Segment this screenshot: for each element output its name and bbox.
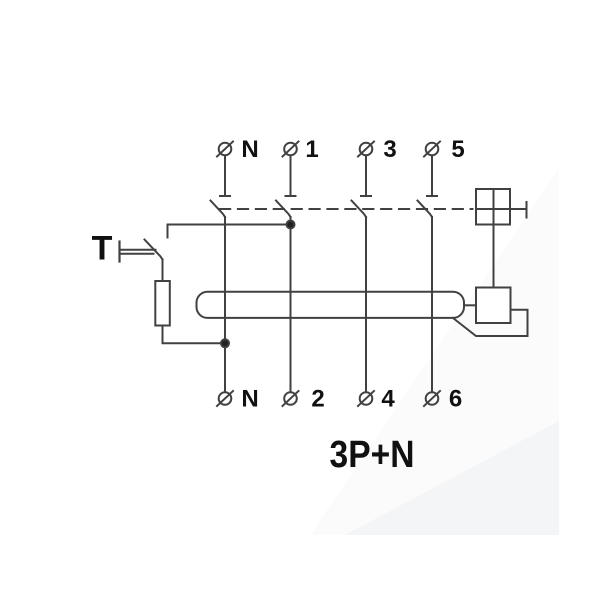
wire pole 3 lower (blade to bottom terminal) <box>365 217 367 392</box>
terminal 5 top: circle with slash <box>424 142 440 157</box>
svg-text:6: 6 <box>449 386 462 413</box>
background shading (photo backdrop fold, bottom right) <box>310 168 559 535</box>
wire pole 1 upper (terminal to fixed contact) <box>290 156 292 197</box>
svg-text:1: 1 <box>305 136 318 163</box>
switch blade pole N <box>211 201 226 218</box>
wire pole N lower (blade to bottom terminal) <box>224 217 226 392</box>
svg-text:3P+N: 3P+N <box>330 434 415 476</box>
svg-text:5: 5 <box>451 136 464 163</box>
test switch fixed contact stub <box>167 225 169 238</box>
wire pole 1 lower (blade to bottom terminal) <box>290 217 292 392</box>
switch blade pole 3 <box>352 201 367 218</box>
wire test switch to resistor <box>162 260 164 282</box>
fixed contact tick pole N <box>220 195 230 197</box>
handle end bar <box>526 202 528 218</box>
mechanism box U1 (trip mechanism, crossed square) <box>476 189 510 225</box>
terminal 6 bottom: circle with slash <box>424 391 440 406</box>
resistor R1 <box>155 281 170 326</box>
fixed contact tick pole 3 <box>361 195 371 197</box>
mechanical linkage dashed line <box>220 208 473 210</box>
node junction on pole 1 <box>287 221 295 229</box>
test button bar <box>118 242 120 262</box>
svg-text:N: N <box>241 136 258 163</box>
wire pole 5 lower (blade to bottom terminal) <box>431 217 433 392</box>
relay K1 (trip coil box) <box>476 288 511 324</box>
svg-text:4: 4 <box>381 386 395 413</box>
wire pole 5 upper (terminal to fixed contact) <box>431 156 433 197</box>
svg-text:3: 3 <box>383 136 396 163</box>
terminal 3 top: circle with slash <box>358 142 374 157</box>
test wire from pole 1 to test switch <box>168 224 291 226</box>
svg-text:2: 2 <box>311 386 324 413</box>
fixed contact tick pole 5 <box>427 195 437 197</box>
current transformer toroid W1 <box>197 292 465 318</box>
terminal N bottom: circle with slash <box>217 391 233 406</box>
test switch blade <box>145 240 163 260</box>
terminal 2 bottom: circle with slash <box>283 391 299 406</box>
actuator line to handle <box>510 208 527 210</box>
switch blade pole 5 <box>418 201 433 218</box>
wire mechanism to relay <box>493 225 495 288</box>
svg-text:N: N <box>241 386 258 413</box>
wire toroid secondary to relay <box>464 304 476 306</box>
terminal N top: circle with slash <box>217 142 233 157</box>
switch blade pole 1 <box>276 201 291 218</box>
node junction on pole N <box>221 339 229 347</box>
wire resistor to N pole <box>163 326 226 344</box>
wire relay return loop to toroid <box>453 310 528 336</box>
svg-text:T: T <box>92 230 113 268</box>
wire pole N upper (terminal to fixed contact) <box>224 156 226 197</box>
terminal 4 bottom: circle with slash <box>358 391 374 406</box>
terminal 1 top: circle with slash <box>283 142 299 157</box>
wire pole 3 upper (terminal to fixed contact) <box>365 156 367 197</box>
test button push rod (two parallel lines) <box>120 250 156 254</box>
fixed contact tick pole 1 <box>286 195 296 197</box>
